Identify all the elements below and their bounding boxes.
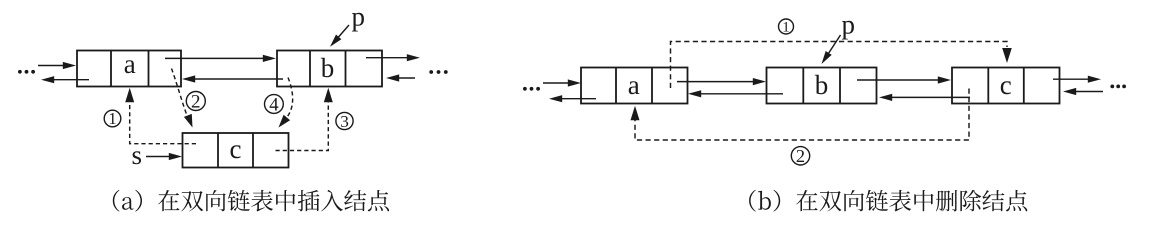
svg-text:2: 2 xyxy=(796,146,805,166)
node b (a): prior|b|next xyxy=(277,51,382,87)
circled 1 (b) xyxy=(779,19,794,34)
wire step1 dashed: c.prior to node a (a) xyxy=(130,101,196,144)
arrowhead step2 into top of c (a) xyxy=(184,114,193,128)
wire step4 dashed curve b.prior to node c (a) xyxy=(288,78,293,117)
wire step2 dashed: c.prior under bottom to node a (b) xyxy=(635,89,969,141)
wire prior pointer b->a (b) xyxy=(698,93,783,95)
wire prior pointer c->b (b) xyxy=(889,96,970,98)
wire prior pointer of a to left (a) xyxy=(51,79,89,81)
wire step2 dashed curve a.next to node c (a) xyxy=(172,69,188,117)
svg-text:a: a xyxy=(124,49,136,79)
wire into node b from right (a) xyxy=(396,77,415,79)
arrowhead step2 up into bottom of a (b) xyxy=(631,106,640,121)
svg-text:b: b xyxy=(815,70,829,100)
node ... left (b) xyxy=(523,87,527,91)
circled 4 (a) xyxy=(265,95,284,114)
wire into node c from right (b) xyxy=(1073,91,1103,93)
node c (b): prior|c|next xyxy=(952,68,1060,104)
circled 1 (a) xyxy=(104,110,121,127)
pointer p arrow to node b (b) xyxy=(827,35,840,56)
svg-text:1: 1 xyxy=(782,20,790,36)
wire next pointer of b to right (a) xyxy=(366,57,410,59)
node a (b): prior|a|next xyxy=(581,68,688,104)
circled 2 (b) xyxy=(791,147,809,165)
wire into node a from left (a) xyxy=(38,65,66,67)
node a (a): prior|a|next xyxy=(77,51,181,87)
caption (b) 在双向链表中删除结点 xyxy=(749,190,1027,212)
circled 2 (a) xyxy=(186,92,205,111)
node b (b): prior|b|next xyxy=(767,68,877,104)
svg-text:p: p xyxy=(352,2,366,32)
wire step3 dashed: c.next to node b (a) xyxy=(276,101,329,151)
wire next pointer b->c (b) xyxy=(857,79,941,81)
wire prior pointer b->a (a) xyxy=(192,78,283,80)
caption (a) 在双向链表中插入结点 xyxy=(113,190,389,212)
node ... right (a) xyxy=(429,70,433,74)
node ... right (b) xyxy=(1110,85,1114,89)
wire next pointer a->b (b) xyxy=(677,81,756,83)
pointer s arrow to node c (a) xyxy=(146,156,172,158)
svg-text:2: 2 xyxy=(191,92,201,113)
node c / s (a): prior|c|next xyxy=(183,133,289,168)
wire into node a from left (b) xyxy=(543,82,571,84)
wire prior pointer of a to left (b) xyxy=(559,98,596,100)
wire next pointer of c to right (b) xyxy=(1053,78,1091,80)
svg-text:p: p xyxy=(842,10,856,40)
svg-text:s: s xyxy=(132,140,143,170)
svg-text:1: 1 xyxy=(108,109,116,128)
wire next pointer a->b (a) xyxy=(165,57,266,59)
svg-text:c: c xyxy=(230,134,242,164)
arrowhead step4 into top of c (a) xyxy=(279,115,291,128)
circled 3 (a) xyxy=(336,112,353,129)
svg-text:b: b xyxy=(321,53,335,83)
arrowhead step1 into bottom of a (a) xyxy=(125,88,134,103)
svg-text:4: 4 xyxy=(269,94,279,115)
wire step1 dashed: a.next over top to node c (b) xyxy=(671,42,1008,89)
pointer p arrow to node b (a) xyxy=(337,25,349,39)
arrowhead step1 down into top of c (b) xyxy=(1002,48,1012,63)
svg-text:c: c xyxy=(1000,70,1012,100)
arrowhead step3 into bottom of b (a) xyxy=(324,88,333,103)
svg-text:a: a xyxy=(628,70,640,100)
svg-text:3: 3 xyxy=(340,112,349,131)
node ... left (a) xyxy=(18,70,22,74)
